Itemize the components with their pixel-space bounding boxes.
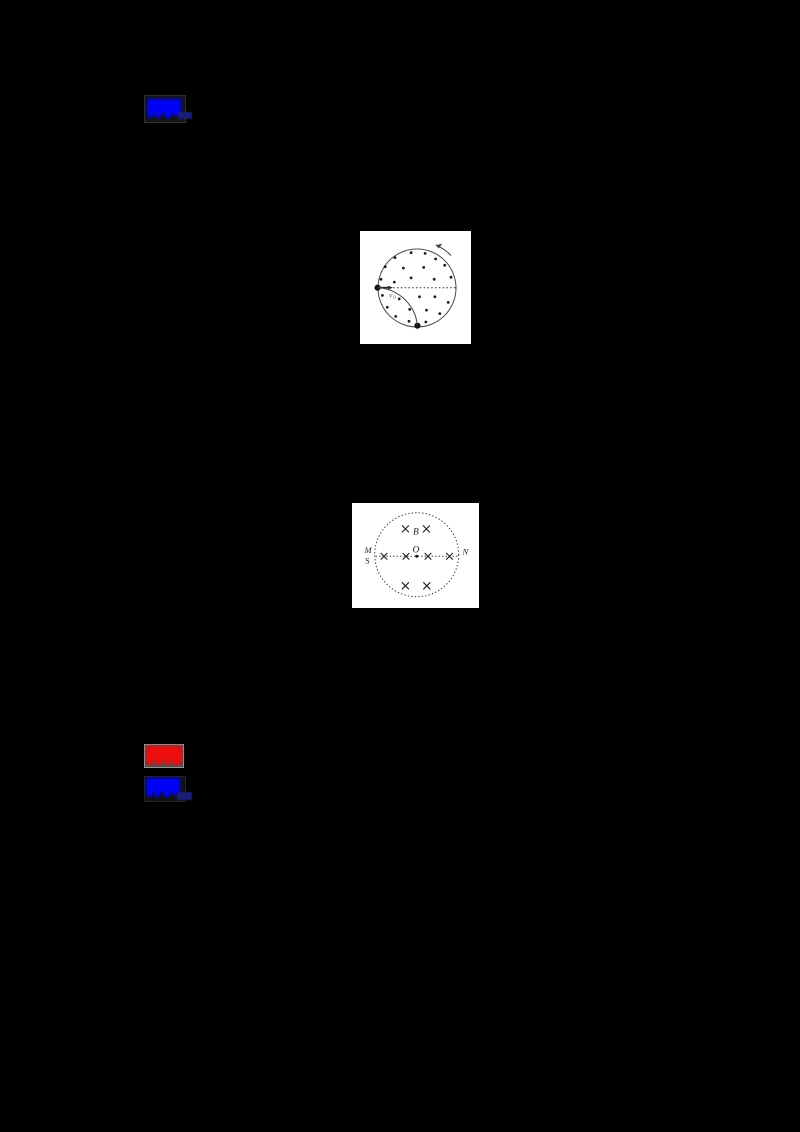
dotted diameter <box>378 287 456 289</box>
svg-text:N: N <box>462 547 470 557</box>
top x marks <box>402 525 430 532</box>
trajectory arc <box>378 288 418 326</box>
navy period blob bottom <box>177 792 192 800</box>
dotted boundary circle <box>375 513 459 597</box>
red text blob <box>146 746 182 761</box>
center dot O <box>415 555 418 558</box>
svg-text:S: S <box>365 556 370 566</box>
analysis-link box (bottom, blue) <box>144 776 186 802</box>
answer box (red) <box>144 744 184 768</box>
v0 arrow <box>378 287 389 289</box>
exit point dot <box>414 323 420 329</box>
navy period blob top <box>178 112 193 119</box>
entry point dot <box>375 285 381 291</box>
dotted line M N <box>376 555 460 557</box>
figure 1: particle in circular field region (dots) <box>360 231 471 344</box>
field dots <box>380 251 453 323</box>
svg-text:M: M <box>364 545 373 555</box>
svg-text:B: B <box>413 528 419 538</box>
svg-text:0: 0 <box>393 295 396 301</box>
blue text blob top <box>147 99 181 114</box>
svg-text:O: O <box>413 546 420 556</box>
field boundary circle <box>378 249 456 327</box>
bottom x marks <box>402 582 430 589</box>
figure 2: dotted circle field region with x marks <box>352 503 479 608</box>
x marks on line <box>381 553 453 560</box>
rotation arrow (top right, outside) <box>436 245 452 256</box>
answer-link box (top, blue) <box>144 95 186 123</box>
blue text blob bottom <box>146 778 180 793</box>
